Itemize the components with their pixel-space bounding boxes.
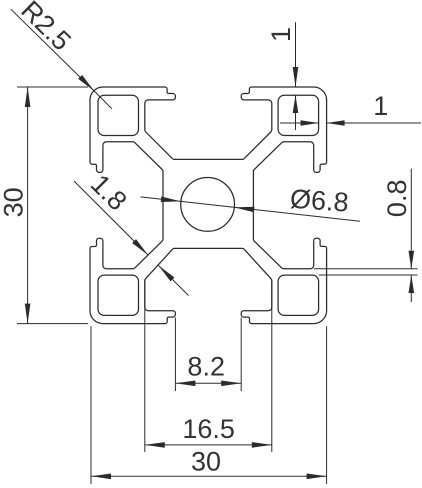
svg-text:30: 30 — [0, 187, 28, 217]
svg-text:1: 1 — [266, 27, 296, 42]
svg-text:1: 1 — [373, 91, 388, 121]
svg-text:0.8: 0.8 — [382, 180, 412, 218]
svg-text:Ø6.8: Ø6.8 — [289, 184, 349, 218]
svg-text:8.2: 8.2 — [187, 352, 225, 382]
svg-text:30: 30 — [191, 447, 221, 477]
svg-text:16.5: 16.5 — [182, 414, 235, 444]
